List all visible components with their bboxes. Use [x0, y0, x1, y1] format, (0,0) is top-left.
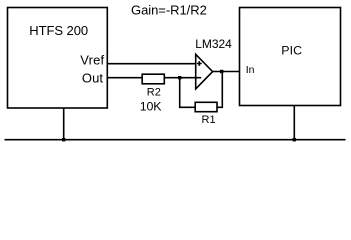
svg-text:HTFS 200: HTFS 200: [29, 23, 88, 38]
svg-text:LM324: LM324: [195, 37, 232, 51]
svg-text:Vref: Vref: [80, 53, 104, 68]
svg-text:In: In: [246, 64, 255, 76]
svg-text:Gain=-R1/R2: Gain=-R1/R2: [131, 3, 207, 18]
svg-text:R2: R2: [147, 86, 161, 98]
svg-text:10K: 10K: [140, 100, 163, 114]
svg-text:PIC: PIC: [281, 44, 302, 58]
svg-text:R1: R1: [202, 114, 216, 126]
svg-text:Out: Out: [82, 71, 103, 86]
